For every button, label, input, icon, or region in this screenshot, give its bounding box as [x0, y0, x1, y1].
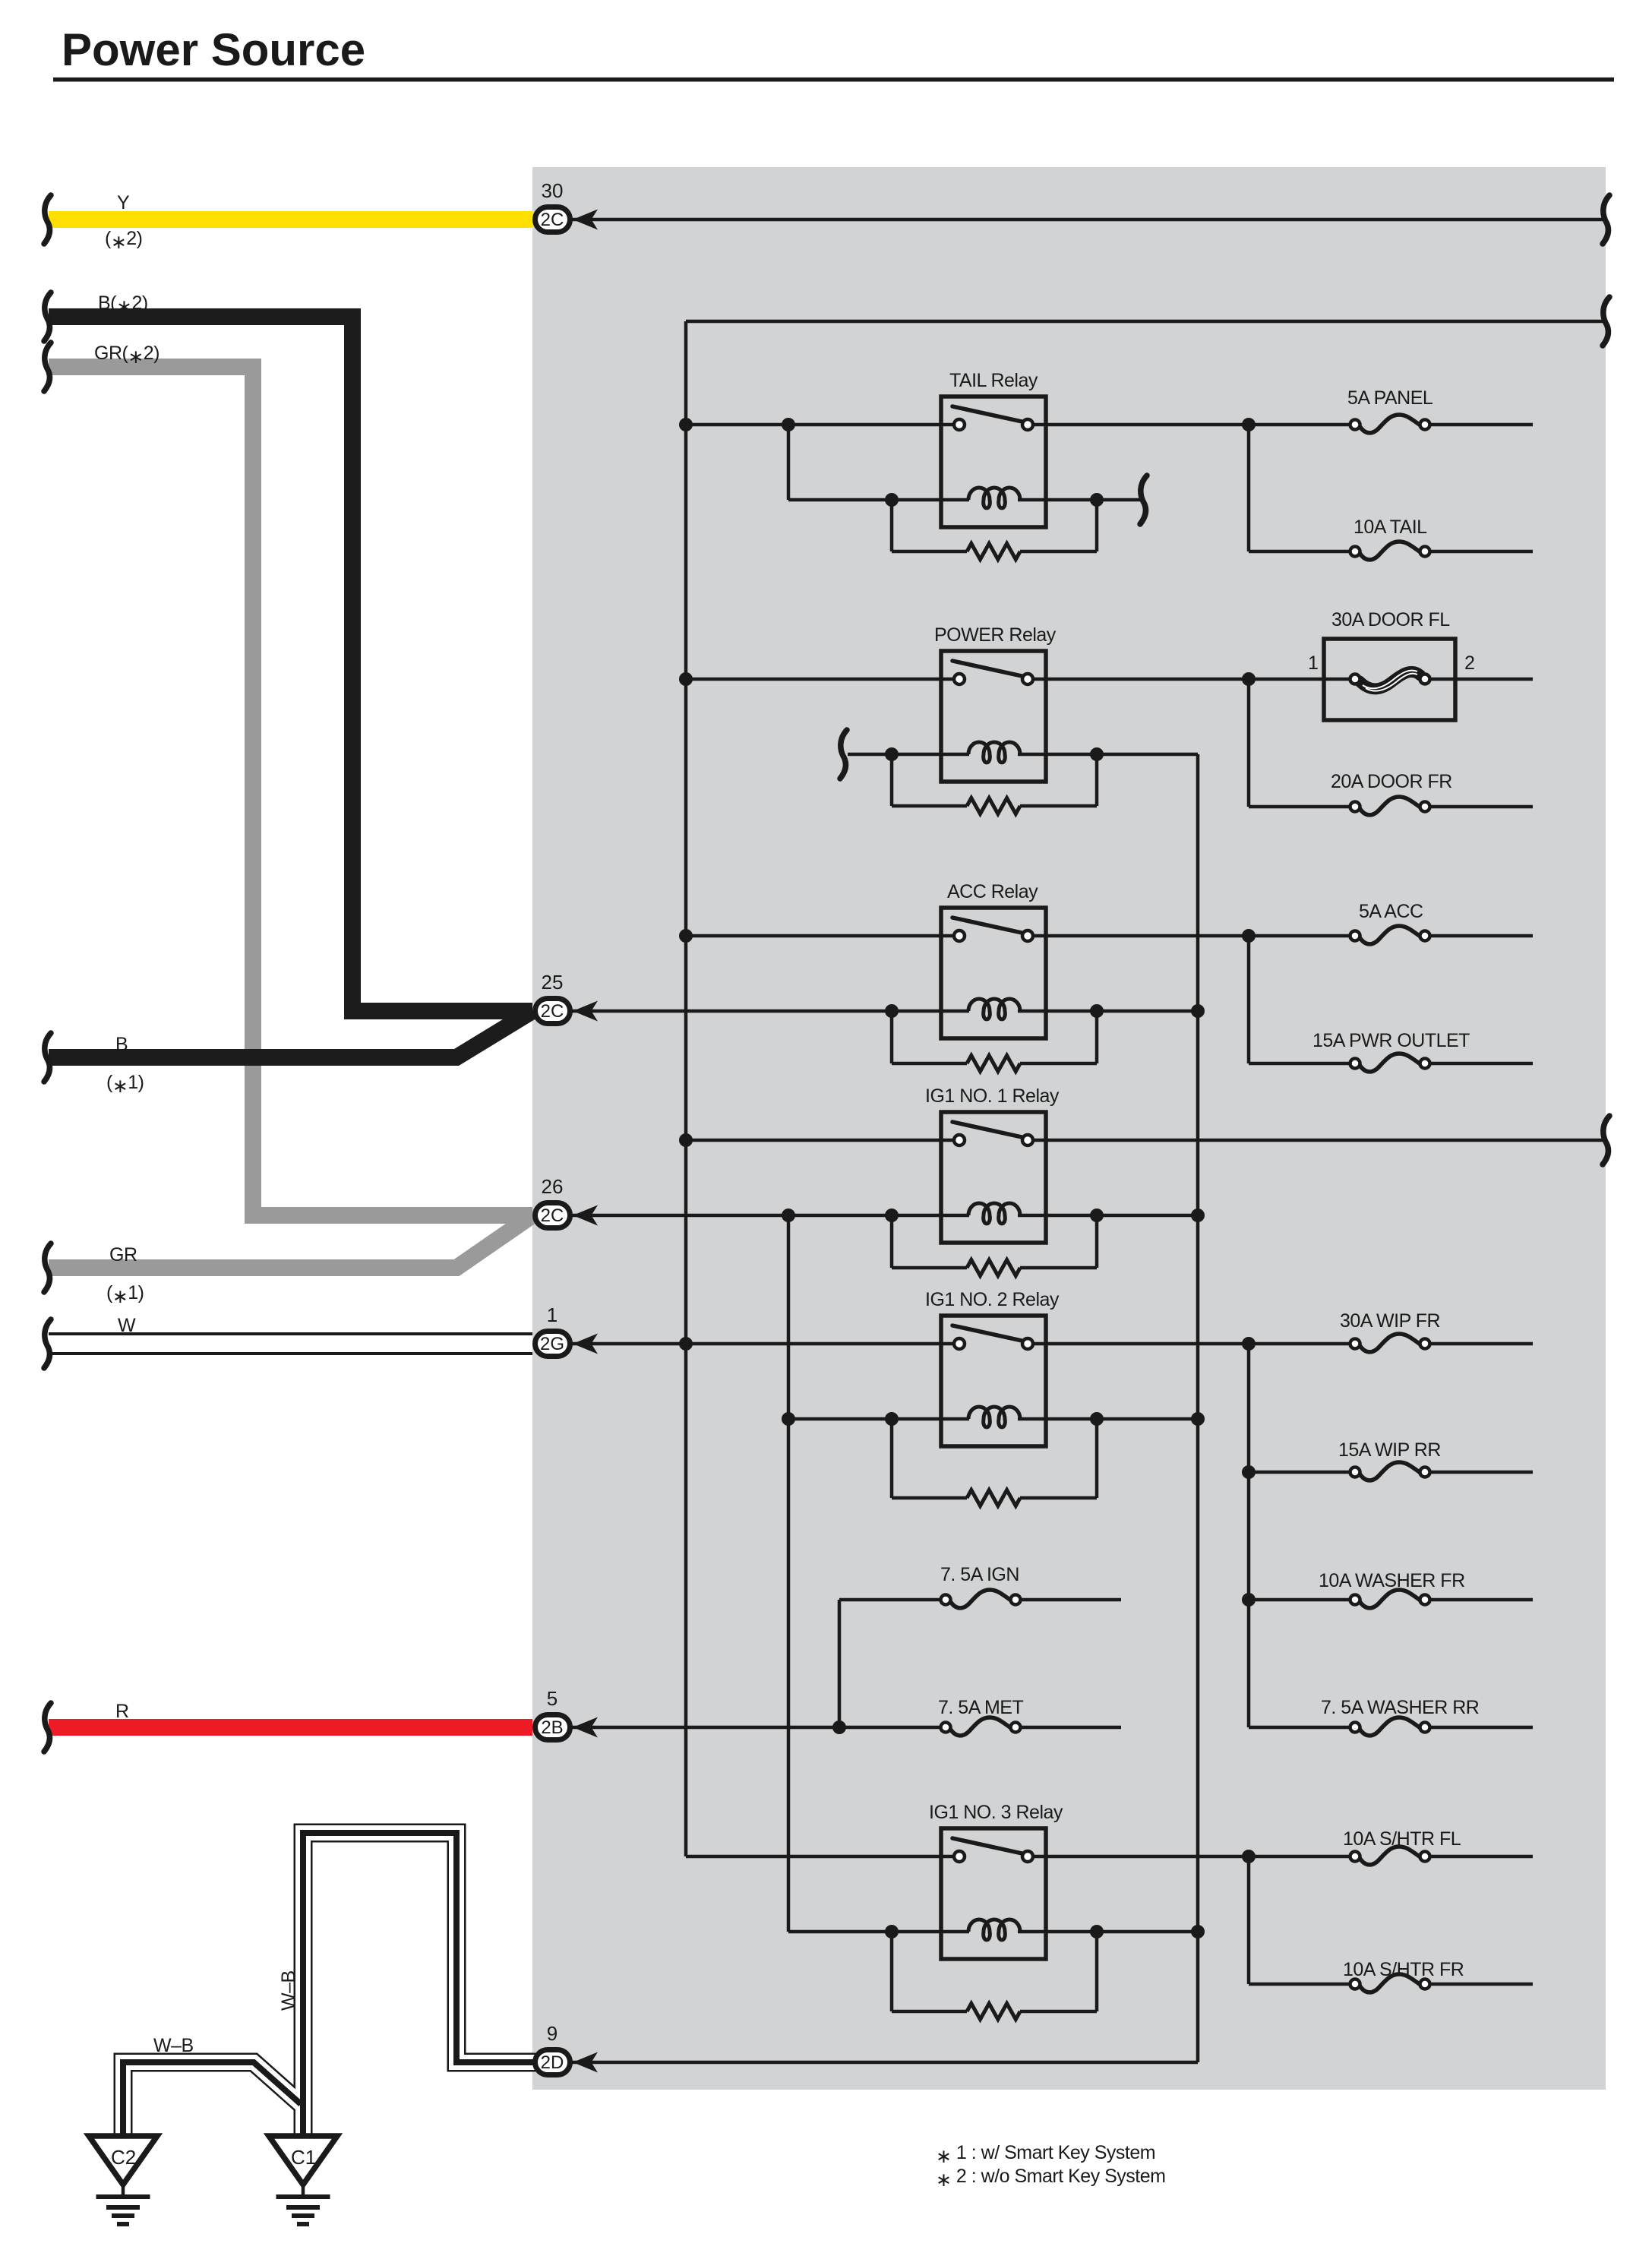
svg-text:30: 30 — [542, 179, 564, 202]
svg-text:W: W — [118, 1315, 136, 1336]
svg-text:7. 5A WASHER RR: 7. 5A WASHER RR — [1321, 1697, 1479, 1718]
svg-text:IG1 NO. 3 Relay: IG1 NO. 3 Relay — [929, 1802, 1063, 1823]
svg-text:7. 5A MET: 7. 5A MET — [938, 1697, 1023, 1718]
svg-text:Y: Y — [117, 192, 130, 213]
svg-text:2C: 2C — [541, 1001, 564, 1022]
svg-text:5: 5 — [547, 1687, 558, 1710]
svg-text:2C: 2C — [541, 210, 564, 230]
svg-text:1: 1 — [547, 1303, 558, 1326]
svg-text:30A WIP FR: 30A WIP FR — [1340, 1310, 1440, 1332]
svg-text:5A PANEL: 5A PANEL — [1347, 387, 1433, 409]
svg-text:GR: GR — [109, 1244, 137, 1265]
svg-text:C1: C1 — [291, 2146, 316, 2169]
svg-text:7. 5A IGN: 7. 5A IGN — [940, 1564, 1019, 1585]
svg-text:2G: 2G — [540, 1334, 564, 1354]
svg-text:9: 9 — [547, 2022, 558, 2045]
svg-text:15A PWR OUTLET: 15A PWR OUTLET — [1312, 1030, 1470, 1051]
svg-text:1: 1 — [1308, 652, 1318, 674]
svg-text:15A WIP RR: 15A WIP RR — [1338, 1439, 1441, 1461]
svg-text:W–B: W–B — [278, 1970, 299, 2011]
svg-text:10A WASHER FR: 10A WASHER FR — [1319, 1570, 1465, 1591]
svg-text:2B: 2B — [541, 1717, 563, 1738]
svg-text:Power Source: Power Source — [62, 24, 365, 75]
svg-text:IG1 NO. 2 Relay: IG1 NO. 2 Relay — [925, 1289, 1060, 1310]
svg-text:2D: 2D — [541, 2052, 564, 2073]
svg-text:R: R — [115, 1701, 129, 1722]
svg-text:2C: 2C — [541, 1205, 564, 1226]
svg-text:25: 25 — [542, 971, 564, 994]
svg-text:30A DOOR FL: 30A DOOR FL — [1331, 609, 1450, 630]
svg-text:10A S/HTR FL: 10A S/HTR FL — [1343, 1828, 1461, 1850]
svg-text:20A DOOR FR: 20A DOOR FR — [1331, 771, 1452, 792]
svg-text:B: B — [115, 1034, 128, 1055]
svg-text:2: 2 — [1464, 652, 1474, 674]
svg-text:10A TAIL: 10A TAIL — [1354, 517, 1427, 538]
svg-text:5A ACC: 5A ACC — [1359, 901, 1423, 922]
svg-text:26: 26 — [542, 1175, 564, 1198]
svg-text:C2: C2 — [111, 2146, 136, 2169]
svg-text:IG1 NO. 1 Relay: IG1 NO. 1 Relay — [925, 1085, 1060, 1107]
svg-text:TAIL Relay: TAIL Relay — [949, 370, 1038, 391]
svg-text:W–B: W–B — [153, 2035, 194, 2056]
svg-text:10A S/HTR FR: 10A S/HTR FR — [1343, 1959, 1464, 1980]
svg-text:POWER Relay: POWER Relay — [934, 624, 1057, 646]
svg-text:ACC Relay: ACC Relay — [947, 881, 1038, 902]
